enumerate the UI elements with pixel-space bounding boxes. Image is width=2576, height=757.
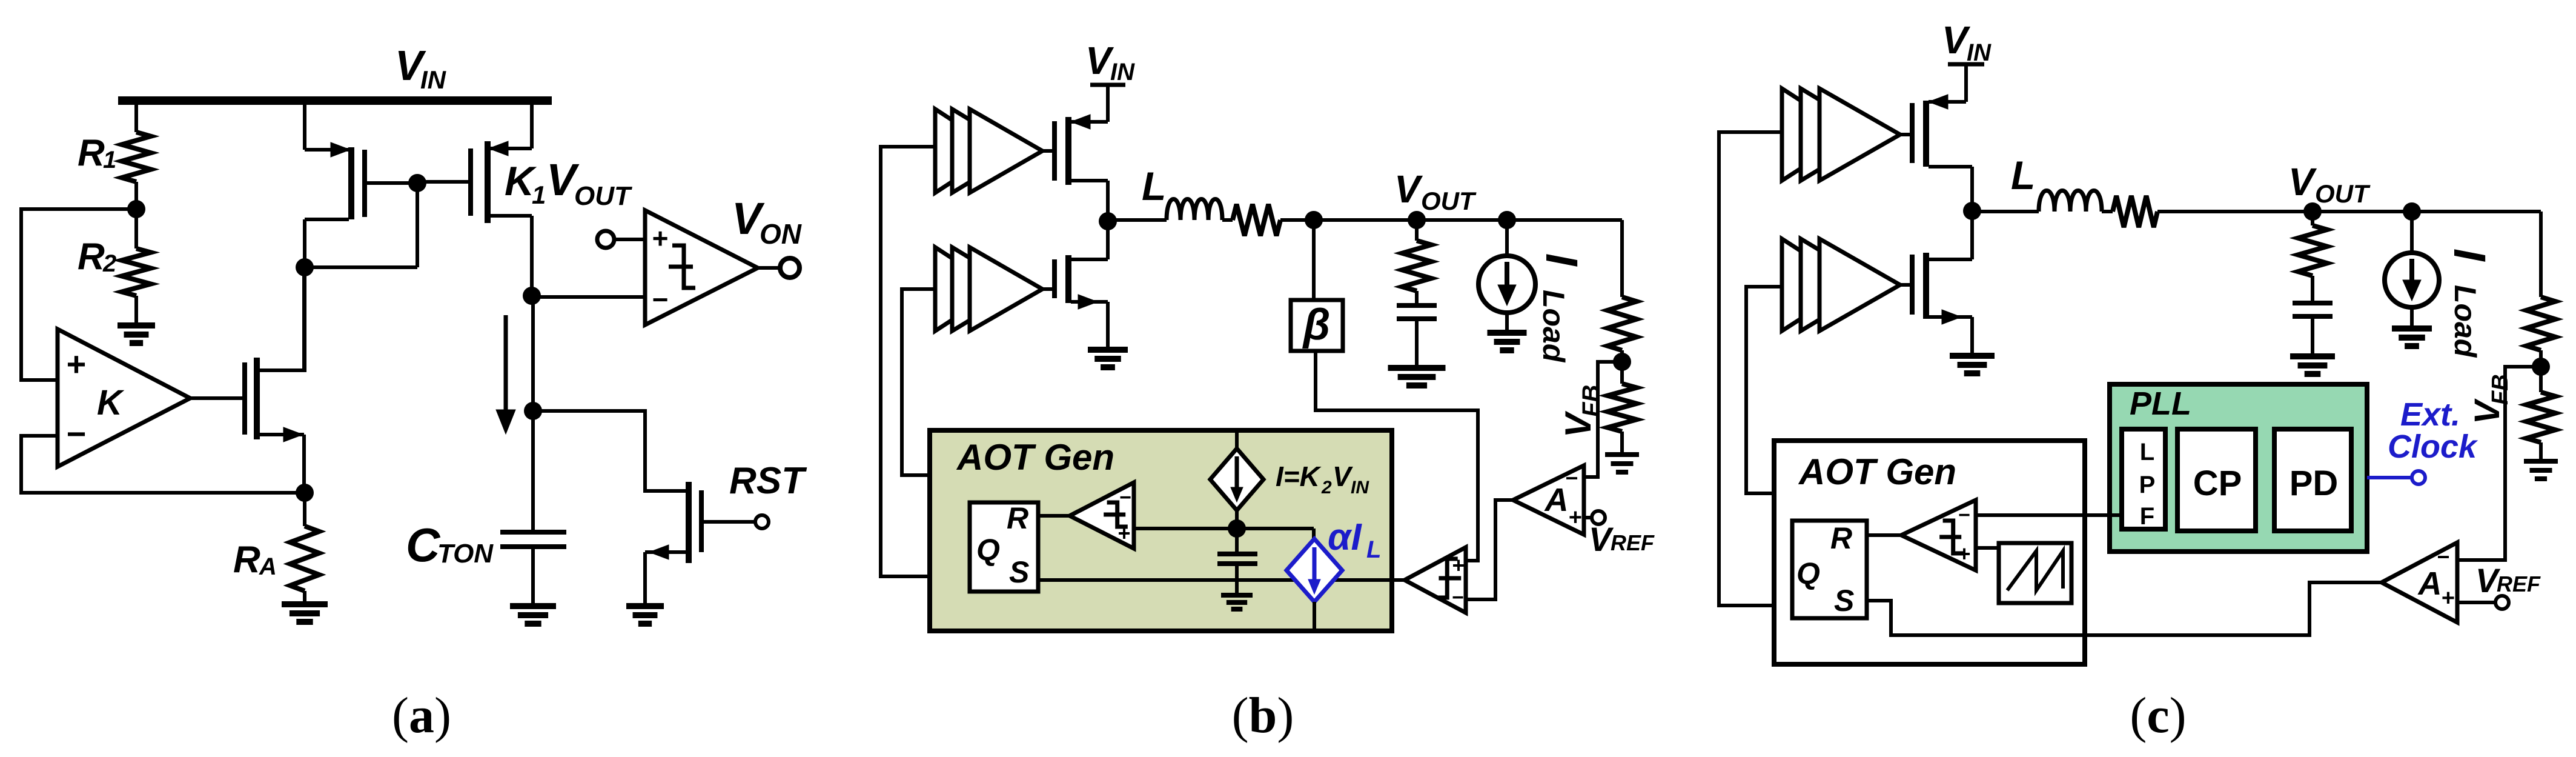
svg-text:F: F: [2140, 503, 2154, 530]
svg-text:−: −: [1958, 504, 1970, 527]
svg-text:Ext.: Ext.: [2400, 396, 2460, 433]
svg-text:1: 1: [103, 147, 116, 173]
svg-text:PLL: PLL: [2130, 385, 2191, 422]
svg-text:+: +: [1569, 505, 1582, 530]
svg-text:IN: IN: [1967, 39, 1992, 66]
svg-text:A: A: [2417, 565, 2442, 602]
svg-text:AOT Gen: AOT Gen: [956, 437, 1114, 478]
svg-text:IN: IN: [420, 65, 447, 94]
svg-text:−: −: [1565, 465, 1578, 490]
svg-text:R: R: [78, 236, 105, 278]
svg-text:(c): (c): [2130, 687, 2186, 744]
svg-text:L: L: [1142, 164, 1166, 208]
svg-text:−: −: [2437, 544, 2449, 569]
svg-text:−: −: [652, 284, 669, 315]
svg-text:IN: IN: [1110, 59, 1135, 85]
svg-text:+: +: [1117, 521, 1130, 545]
svg-text:OUT: OUT: [574, 181, 632, 211]
svg-text:K: K: [97, 383, 125, 422]
svg-text:(b): (b): [1232, 687, 1294, 744]
svg-text:Q: Q: [1796, 556, 1820, 590]
svg-text:A: A: [259, 553, 277, 580]
svg-text:S: S: [1834, 584, 1854, 618]
svg-text:−: −: [1452, 586, 1464, 609]
svg-text:OUT: OUT: [2315, 179, 2371, 208]
svg-text:−: −: [1119, 486, 1131, 509]
svg-text:L: L: [1366, 536, 1381, 563]
svg-text:+: +: [2442, 585, 2455, 611]
svg-text:β: β: [1302, 301, 1331, 349]
svg-text:R: R: [233, 539, 260, 581]
svg-text:2: 2: [1321, 478, 1332, 498]
svg-text:FB: FB: [2488, 374, 2513, 405]
svg-text:AOT Gen: AOT Gen: [1798, 452, 1956, 492]
svg-text:ON: ON: [760, 218, 802, 250]
svg-text:TON: TON: [437, 539, 494, 569]
svg-text:αI: αI: [1328, 516, 1362, 558]
svg-text:R: R: [1007, 501, 1028, 535]
svg-text:R: R: [78, 132, 105, 174]
svg-text:+: +: [67, 345, 87, 383]
svg-text:1: 1: [532, 181, 546, 209]
svg-text:OUT: OUT: [1421, 187, 1477, 215]
svg-text:L: L: [2011, 153, 2035, 198]
svg-text:Q: Q: [976, 533, 1000, 567]
svg-text:R: R: [1830, 521, 1852, 555]
svg-text:IN: IN: [1351, 478, 1369, 498]
svg-text:−: −: [67, 415, 87, 453]
svg-text:(a): (a): [392, 687, 451, 744]
svg-text:C: C: [406, 518, 441, 572]
svg-text:V: V: [1333, 461, 1353, 492]
svg-text:I: I: [1537, 253, 1587, 267]
svg-text:I=K: I=K: [1276, 461, 1322, 492]
svg-text:Load: Load: [2448, 285, 2482, 358]
svg-text:2: 2: [102, 250, 116, 277]
svg-text:P: P: [2139, 472, 2156, 498]
svg-text:RST: RST: [729, 460, 807, 502]
svg-text:CP: CP: [2193, 464, 2242, 503]
svg-text:S: S: [1009, 555, 1029, 589]
svg-text:V: V: [2288, 160, 2317, 204]
svg-text:+: +: [652, 222, 669, 254]
svg-text:V: V: [1394, 167, 1423, 211]
svg-text:L: L: [2140, 439, 2154, 465]
svg-text:A: A: [1544, 482, 1569, 518]
svg-text:Load: Load: [1537, 290, 1571, 363]
svg-text:FB: FB: [1578, 385, 1604, 417]
svg-text:Clock: Clock: [2388, 429, 2478, 465]
svg-text:REF: REF: [1611, 530, 1655, 555]
svg-text:REF: REF: [2497, 572, 2541, 596]
svg-text:+: +: [1452, 553, 1465, 578]
svg-text:I: I: [2445, 248, 2495, 262]
svg-text:PD: PD: [2290, 464, 2339, 503]
